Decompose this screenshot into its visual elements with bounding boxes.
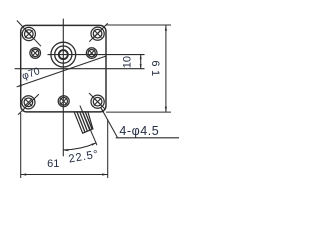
shaft horizontal centerline xyxy=(48,54,145,56)
dim 61 bottom: dimension line xyxy=(21,174,108,176)
lever hatched body xyxy=(74,111,93,133)
diagonal centerline TR hole xyxy=(89,23,107,41)
lever centerline at 22.5 deg xyxy=(80,106,97,146)
svg-text:10: 10 xyxy=(122,56,134,68)
small hole bottom xyxy=(58,96,69,107)
dim 61 right: dimension line xyxy=(165,25,167,112)
phi70 leader line xyxy=(17,56,106,87)
plate outline (61x61 body, rounded corners) xyxy=(21,25,106,112)
corner mounting hole top-left xyxy=(22,27,35,40)
small hole right xyxy=(86,48,97,59)
dim 61 right: extension line bottom xyxy=(106,111,171,113)
svg-text:4-φ4.5: 4-φ4.5 xyxy=(119,124,159,138)
svg-text:1: 1 xyxy=(149,70,161,76)
diagonal centerline BR hole xyxy=(89,93,106,110)
corner mounting hole bottom-left xyxy=(22,96,35,109)
svg-text:22.5°: 22.5° xyxy=(68,148,100,165)
horizontal plate centerline xyxy=(15,68,145,70)
phi70 leader arrowhead xyxy=(17,84,22,87)
dim 61 right arrows xyxy=(165,25,167,30)
diagonal centerline TL hole xyxy=(17,21,41,47)
dim 61 bottom: extension line right xyxy=(107,120,109,179)
dim 61 bottom: extension line left xyxy=(20,113,22,178)
dim 10: dimension line xyxy=(140,55,142,69)
svg-text:6: 6 xyxy=(149,60,161,66)
diagonal centerline BL hole xyxy=(18,94,39,115)
dim 61 right: extension line top xyxy=(106,24,171,26)
small hole left xyxy=(30,48,41,59)
dim 61 bottom arrows xyxy=(21,173,26,175)
corner mounting hole top-right xyxy=(91,27,104,40)
leader underline xyxy=(116,137,179,139)
shaft boss concentric circles xyxy=(51,42,76,67)
dim 10 arrows xyxy=(140,55,142,60)
corner mounting hole bottom-right xyxy=(91,95,104,108)
svg-text:61: 61 xyxy=(47,158,59,170)
leader arrowhead xyxy=(101,108,104,113)
leader for 4-phi4.5 holes xyxy=(101,108,118,138)
vertical centerline xyxy=(62,19,64,157)
arc arrow left xyxy=(64,149,69,151)
arc arrow right xyxy=(91,143,96,146)
22.5 deg angle arc xyxy=(63,143,96,150)
